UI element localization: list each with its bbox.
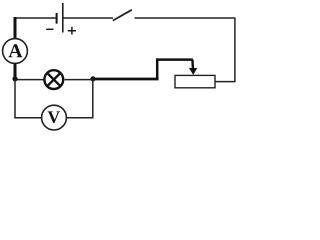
rheostat wiper arrow <box>189 60 197 75</box>
battery negative terminal label - <box>46 28 53 30</box>
battery B1 <box>57 3 63 33</box>
wire: top-left horizontal from ammeter corner to battery <box>14 17 56 19</box>
node: lamp-voltmeter right junction <box>90 76 95 81</box>
wire: right riser up to junction <box>92 79 94 119</box>
wire: right vertical down to rheostat lead <box>234 17 236 81</box>
wire: thick vertical step <box>156 58 159 79</box>
wire: left vertical to voltmeter branch <box>14 79 16 119</box>
lamp L1 (circle with X) <box>44 70 63 89</box>
wire: thick lead from top wire into ammeter <box>14 17 17 39</box>
wire: thick horizontal from lamp junction <box>93 78 159 81</box>
wire: bottom horizontal to voltmeter <box>14 117 42 119</box>
wire: battery to switch <box>64 17 114 19</box>
wire: voltmeter to right riser <box>66 117 93 119</box>
battery positive terminal label + <box>68 27 76 35</box>
ammeter A1 <box>3 39 28 64</box>
rheostat R (resistance box) <box>175 75 215 87</box>
node: lamp-voltmeter left junction <box>12 76 17 81</box>
wire: thick horizontal to wiper <box>156 58 193 61</box>
wire: thick lead ammeter to left junction <box>14 63 17 79</box>
wire: rheostat right lead <box>215 81 236 83</box>
wire: lamp to right junction <box>65 79 93 81</box>
wire: left junction to lamp <box>15 79 44 81</box>
wire: switch to top-right corner <box>135 17 235 19</box>
switch S (open blade) <box>113 10 132 21</box>
voltmeter V1 <box>42 105 67 130</box>
